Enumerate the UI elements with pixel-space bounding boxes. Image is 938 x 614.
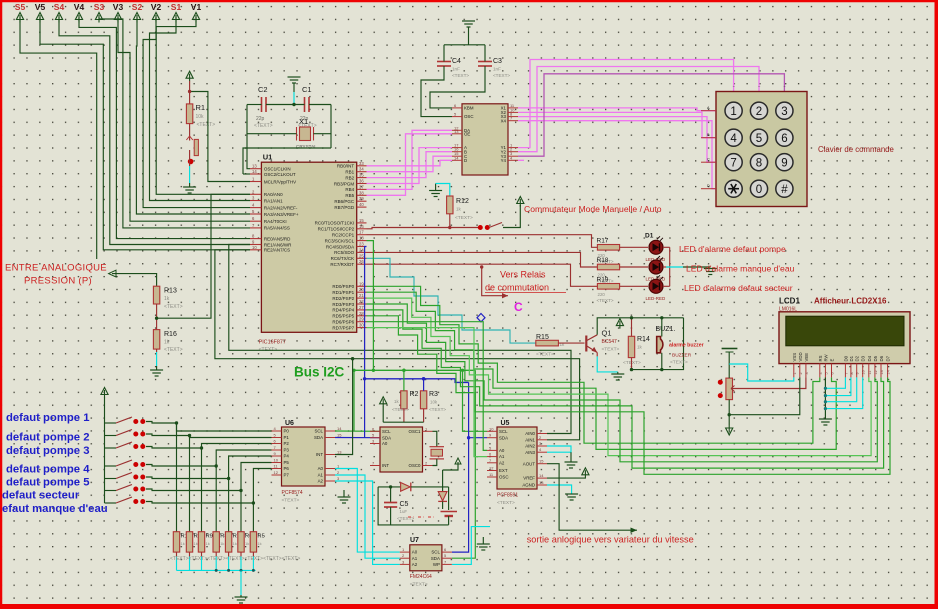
wire terminal S5 spare	[20, 17, 97, 259]
svg-text:P5: P5	[284, 460, 290, 465]
junction node MCLR net	[188, 159, 194, 165]
wire SDA to U5	[469, 382, 487, 437]
ground below R16	[150, 370, 163, 376]
svg-text:U6: U6	[285, 420, 294, 427]
svg-text:20: 20	[359, 287, 364, 292]
wire buzzer bottom	[661, 353, 663, 370]
svg-text:2: 2	[799, 372, 803, 374]
U3 pin 3 Y3	[508, 155, 518, 157]
wire SCL row U6-U2	[335, 430, 380, 432]
svg-text:12: 12	[874, 370, 878, 374]
svg-text:13: 13	[454, 129, 459, 134]
wire diode left	[378, 486, 401, 488]
svg-text:A1: A1	[318, 473, 324, 478]
svg-text:R2: R2	[410, 391, 419, 398]
wire switch 3 pivot	[105, 447, 117, 449]
svg-text:RB1: RB1	[345, 170, 354, 175]
svg-text:defaut pompe 4: defaut pompe 4	[6, 464, 90, 476]
wire terminal to U1 RA5	[99, 17, 250, 228]
resistor R13	[153, 286, 159, 304]
U1 pin 1 MCLR/Vpp/THV	[250, 181, 261, 183]
power terminal switches	[101, 388, 108, 398]
svg-text:15: 15	[337, 433, 342, 438]
U1 pin 40 RB7/PGD	[357, 206, 367, 208]
bus SDA (Bus I2C)	[365, 379, 469, 383]
U6 pin 15 SDA	[325, 437, 335, 439]
input arrow terminal	[109, 270, 116, 277]
svg-text:Q1: Q1	[602, 329, 612, 338]
svg-text:19: 19	[359, 281, 364, 286]
svg-text:RB2: RB2	[345, 175, 354, 180]
svg-text:<TEXT>: <TEXT>	[410, 582, 428, 588]
resistor R10	[186, 532, 192, 552]
svg-text:RD2/PSP2: RD2/PSP2	[332, 296, 354, 301]
U1 pin 29 RD6/PSP6	[357, 321, 367, 323]
wire to R7	[228, 479, 230, 532]
svg-text:INT: INT	[382, 463, 389, 468]
svg-text:D: D	[707, 184, 710, 188]
svg-text:5: 5	[756, 133, 762, 145]
wire to OSC1	[247, 134, 250, 169]
svg-text:1k: 1k	[164, 296, 170, 302]
wire cyan U7 WP	[452, 527, 490, 565]
svg-text:23: 23	[359, 242, 364, 247]
svg-text:7: 7	[730, 157, 736, 169]
svg-text:1k: 1k	[181, 541, 185, 546]
wire node	[330, 133, 332, 135]
wire gnd stub	[468, 27, 470, 45]
svg-text:9: 9	[856, 372, 860, 374]
svg-text:S2: S2	[132, 2, 143, 12]
U3 pin 1 Y1	[508, 147, 518, 149]
U5 pin 13 AGND	[537, 484, 547, 486]
svg-text:10: 10	[252, 245, 257, 250]
svg-text:P0: P0	[284, 429, 290, 434]
U1 pin 17 RC2/CCP1	[357, 234, 367, 236]
U5 pin 11 OSC	[487, 476, 497, 478]
U7 pin 2 A1	[400, 557, 410, 559]
svg-text:WP: WP	[433, 562, 440, 567]
svg-text:D7: D7	[886, 355, 891, 361]
U5 pin 7 A2	[487, 462, 497, 464]
svg-text:1: 1	[793, 372, 797, 374]
svg-text:#: #	[781, 184, 788, 196]
wire crystal left	[247, 105, 297, 134]
wire cyan to bus	[201, 557, 203, 571]
U3 pin 15 C	[452, 155, 462, 157]
wire pot bottom	[728, 400, 730, 425]
U6 pin 3 A2	[325, 480, 335, 482]
svg-text:SCL: SCL	[314, 429, 323, 434]
keypad button 9	[776, 154, 793, 171]
svg-text:Clavier de commande: Clavier de commande	[818, 145, 894, 154]
svg-text:RB7/PGD: RB7/PGD	[334, 205, 355, 210]
svg-text:PIC16F877: PIC16F877	[259, 340, 286, 346]
wire SDA row U6-U2	[335, 437, 380, 439]
wire R1 top	[189, 81, 191, 104]
svg-text:1k: 1k	[220, 541, 224, 546]
U1 pin 27 RD4/PSP4	[357, 309, 367, 311]
svg-text:15: 15	[359, 218, 364, 223]
svg-text:1k: 1k	[245, 541, 249, 546]
svg-text:9: 9	[781, 157, 787, 169]
svg-text:R9: R9	[206, 534, 213, 540]
U1 pin 15 RC0/T1OSO/T1CKI	[357, 222, 367, 224]
svg-text:C5: C5	[400, 501, 409, 508]
svg-text:R14: R14	[637, 336, 650, 343]
U1 pin 13 OSC1/CLKIN	[250, 168, 261, 170]
svg-text:10: 10	[274, 458, 279, 463]
wire switch 4 out	[146, 465, 216, 467]
svg-text:38: 38	[359, 190, 364, 195]
resistor R14	[628, 336, 634, 357]
wire to R8	[215, 466, 217, 532]
resistor R2	[401, 391, 407, 409]
wire switch 2 pivot	[105, 435, 117, 437]
terminal arrow S4	[55, 13, 62, 23]
svg-text:SCL: SCL	[499, 429, 508, 434]
svg-text:RD6/PSP6: RD6/PSP6	[332, 320, 354, 325]
U6 pin 6 P2	[272, 443, 282, 445]
svg-text:RB6/PGC: RB6/PGC	[334, 199, 355, 204]
U3 pin 17 A	[452, 147, 462, 149]
svg-text:OSC: OSC	[464, 114, 474, 119]
wire switch 6 pivot	[105, 490, 117, 492]
svg-text:24: 24	[359, 247, 364, 252]
wire cyan AIN2-AIN3	[547, 446, 571, 452]
svg-text:12: 12	[489, 466, 494, 471]
svg-text:R13: R13	[164, 288, 177, 295]
LED D1 element 2 LED-RED	[649, 260, 663, 274]
svg-text:AOUT: AOUT	[523, 461, 536, 466]
wire Y4 stub	[518, 159, 524, 161]
svg-text:22p: 22p	[256, 116, 265, 122]
wire VREF	[547, 477, 585, 480]
svg-text:LED-RED: LED-RED	[646, 296, 667, 301]
terminal arrow V4	[75, 13, 82, 23]
svg-text:R16: R16	[164, 331, 177, 338]
svg-text:8: 8	[850, 372, 854, 374]
U1 pin 5 RA3/AN3/VREF+	[250, 213, 261, 215]
wire OSC1 to crystal	[433, 431, 437, 446]
U1 pin 37 RB4	[357, 188, 367, 190]
ground near U7	[477, 544, 490, 550]
U1 pin 3 RA1/AN1	[250, 200, 261, 202]
potentiometer RV1	[726, 378, 733, 400]
U1 pin 7 RA5/AN4/SS	[250, 227, 261, 229]
wire cyan LCD data	[825, 377, 856, 401]
wire LED anode	[663, 285, 670, 287]
svg-text:RA0/AN0: RA0/AN0	[264, 192, 283, 197]
svg-text:R15: R15	[536, 334, 549, 341]
svg-text:defaut pompe 5: defaut pompe 5	[6, 477, 89, 489]
wire cyan U6 A1 to U7	[335, 475, 400, 558]
wire terminal to U1 RA2	[143, 17, 250, 208]
svg-text:<TEXT>: <TEXT>	[493, 73, 510, 78]
svg-text:VSS: VSS	[792, 353, 797, 362]
wire to ground	[570, 452, 572, 462]
svg-text:FM24C64: FM24C64	[410, 574, 432, 580]
wire R1 to MCLR	[190, 92, 250, 182]
svg-text:13: 13	[337, 450, 342, 455]
svg-text:VDD: VDD	[798, 352, 803, 361]
svg-text:C: C	[514, 300, 523, 314]
wire Q1 collector loop top	[597, 318, 683, 335]
U5 pin 4 AIN3	[537, 451, 547, 453]
svg-text:BUZ1.: BUZ1.	[656, 326, 676, 333]
svg-text:RC0/T1OSO/T1CKI: RC0/T1OSO/T1CKI	[315, 221, 355, 226]
svg-text:OSC0: OSC0	[409, 463, 422, 468]
svg-text:Commutateur Mode Manuelle / Au: Commutateur Mode Manuelle / Auto	[524, 204, 662, 214]
svg-text:33: 33	[359, 161, 364, 166]
svg-text:V2: V2	[151, 2, 162, 12]
U6 pin 11 P6	[272, 468, 282, 470]
terminal arrow V5	[36, 13, 43, 23]
wire pot wiper to VEE	[733, 377, 806, 388]
svg-text:SDA: SDA	[499, 435, 508, 440]
svg-text:39: 39	[359, 196, 364, 201]
U7 pin 3 A2	[400, 563, 410, 565]
wire cyan to bus	[228, 557, 230, 571]
svg-text:OSC1: OSC1	[409, 429, 422, 434]
wire zener bottom	[442, 501, 444, 509]
svg-text:RE2/AN7/CS: RE2/AN7/CS	[264, 248, 290, 253]
svg-text:R18: R18	[597, 257, 609, 264]
svg-text:OSC1/CLKIN: OSC1/CLKIN	[264, 167, 291, 172]
svg-text:LED d'alarme defaut pompe: LED d'alarme defaut pompe	[679, 244, 786, 254]
U1 pin 2 RA0/AN0	[250, 193, 261, 195]
svg-text:LED d'alarme manque d'eau: LED d'alarme manque d'eau	[686, 264, 795, 274]
svg-text:RA2/AN2/VREF-: RA2/AN2/VREF-	[264, 205, 298, 210]
svg-text:0: 0	[756, 184, 762, 196]
svg-text:<TEXT>: <TEXT>	[392, 407, 409, 412]
wire magenta encoder X to keypad row	[518, 112, 716, 137]
terminal arrow S2	[133, 13, 140, 23]
U1 pin 10 RE2/AN7/CS	[250, 249, 261, 251]
U3 pin 14 D	[452, 159, 462, 161]
svg-text:RB3/PGM: RB3/PGM	[334, 181, 355, 186]
svg-text:10k: 10k	[196, 114, 205, 120]
U1 pin 38 RB5	[357, 194, 367, 196]
wire VCC stem	[382, 407, 384, 423]
wire to U6 P5	[241, 463, 272, 491]
svg-text:1uF: 1uF	[400, 509, 408, 514]
svg-text:BUZZER: BUZZER	[672, 353, 692, 359]
U1 pin 28 RD5/PSP5	[357, 315, 367, 317]
U1 pin 30 RD7/PSP7	[357, 327, 367, 329]
U1 pin 20 RD1/PSP1	[357, 291, 367, 293]
wire cyan crystal ground	[293, 92, 295, 105]
wire C1 right	[309, 104, 331, 106]
keypad row pin 3	[701, 188, 716, 190]
U3 pin 12 DA	[452, 129, 462, 131]
wire cyan LCD data	[825, 377, 851, 395]
svg-text:C2: C2	[258, 85, 268, 94]
wire cyan to bus	[252, 557, 254, 571]
svg-text:13: 13	[880, 370, 884, 374]
svg-text:25: 25	[359, 253, 364, 258]
wire to OSC2	[243, 173, 250, 175]
svg-text:SCL: SCL	[431, 550, 440, 555]
svg-text:SDA: SDA	[382, 435, 391, 440]
svg-text:13: 13	[252, 164, 257, 169]
svg-text:C3: C3	[493, 58, 502, 65]
svg-text:RB5: RB5	[345, 193, 354, 198]
keypad encoder U3 MM74C922	[462, 104, 508, 175]
wire to R10	[189, 436, 191, 532]
wire RD3 to LCD	[367, 304, 878, 462]
svg-text:V1: V1	[191, 2, 202, 12]
wire RD2 to LCD	[367, 298, 872, 456]
wire resistor bottom	[228, 552, 230, 556]
wire terminal to U1 RE2	[40, 17, 250, 250]
U5 pin 3 AIN2	[537, 445, 547, 447]
svg-text:RD5/PSP5: RD5/PSP5	[332, 314, 354, 319]
keypad button 1	[725, 102, 742, 119]
wire cyan R1 ground	[189, 166, 191, 183]
svg-text:22: 22	[359, 299, 364, 304]
svg-text:3: 3	[781, 106, 787, 118]
resistor R8	[213, 532, 219, 552]
U6 pin 1 A0	[325, 468, 335, 470]
wire switch 1 out	[146, 422, 177, 424]
svg-text:RD7/PSP7: RD7/PSP7	[332, 325, 354, 330]
U1 pin 33 RB0/INT	[357, 165, 367, 167]
U1 pin 16 RC1/T1OSI/CCP2	[357, 228, 367, 230]
wire RC1 to mode switch	[367, 228, 479, 229]
U3 pin 13 OE	[452, 133, 462, 135]
U2 pin 2 OSC0	[423, 465, 433, 467]
wire AOUT sortie	[547, 464, 637, 531]
U1 pin 23 RC4/SDI/SDA	[357, 246, 367, 248]
svg-text:OSC2/CLKOUT: OSC2/CLKOUT	[264, 172, 296, 177]
wire R13-R16	[156, 304, 158, 330]
svg-text:defaut pompe 1: defaut pompe 1	[6, 412, 89, 424]
svg-text:C1: C1	[302, 85, 312, 94]
wire RE1 to U5 AIN0	[229, 245, 571, 434]
ground AIN	[565, 462, 578, 468]
junction marker	[477, 314, 485, 322]
svg-text:R17: R17	[597, 237, 609, 244]
wire RD7 to U5 A1	[367, 328, 488, 457]
wire stub	[240, 595, 242, 597]
wire ground stub	[293, 83, 295, 92]
wire R14 bottom	[631, 358, 633, 370]
capacitor C3	[478, 62, 492, 67]
wire cyan U6 A0 to U7	[335, 469, 400, 553]
svg-text:1k: 1k	[456, 207, 462, 212]
svg-text:V4: V4	[74, 2, 85, 12]
svg-text:SCL: SCL	[382, 429, 391, 434]
keypad button 7	[725, 154, 742, 171]
resistor R9	[198, 532, 204, 552]
svg-text:220: 220	[598, 292, 606, 297]
svg-text:AIN3: AIN3	[525, 450, 535, 455]
svg-text:R19: R19	[597, 276, 609, 283]
wire C2-C1	[266, 104, 305, 106]
svg-text:10: 10	[862, 370, 866, 374]
resistor R18	[597, 264, 619, 270]
svg-text:RC6/TX/CK: RC6/TX/CK	[331, 256, 355, 261]
svg-text:1k: 1k	[637, 345, 643, 350]
wire cyan emitter to ground	[597, 356, 618, 372]
wire teal RC6 to R15	[367, 258, 536, 343]
wire LED rail	[669, 247, 671, 286]
svg-text:1k: 1k	[164, 340, 170, 346]
svg-text:AGND: AGND	[522, 483, 535, 488]
svg-text:RE0/AN5/RD: RE0/AN5/RD	[264, 236, 291, 241]
keypad button 8	[750, 154, 767, 171]
keypad button 4	[725, 129, 742, 146]
wire C5 top	[390, 487, 392, 502]
wire cyan AGND	[547, 485, 572, 494]
wire to U6 P0	[177, 423, 272, 431]
svg-text:A0: A0	[318, 466, 324, 471]
svg-text:14: 14	[337, 426, 342, 431]
resistor R5	[250, 532, 256, 552]
U3 pin 16 B	[452, 151, 462, 153]
wire magenta U1 to encoder	[367, 160, 453, 166]
svg-text:D4: D4	[867, 355, 872, 361]
svg-text:A2: A2	[318, 479, 324, 484]
wire R14 top	[631, 318, 633, 337]
svg-text:VEE: VEE	[804, 353, 809, 362]
resistor R16	[153, 330, 159, 350]
wire magenta U1 to encoder	[367, 152, 453, 178]
U3 pin 2 Y2	[508, 151, 518, 153]
svg-text:defaut pompe 3: defaut pompe 3	[6, 445, 89, 457]
wire magenta U1 to encoder	[367, 130, 453, 189]
svg-text:RA3/AN3/VREF+: RA3/AN3/VREF+	[264, 212, 299, 217]
wire cyan to ground	[156, 352, 158, 366]
wire terminal to U1 RA3	[136, 17, 250, 214]
svg-text:RD0/PSP0: RD0/PSP0	[332, 284, 354, 289]
wire switch 4 pivot	[105, 465, 117, 467]
wire RW to ground	[824, 377, 826, 419]
U1 pin 36 RB3/PGM	[357, 183, 367, 185]
svg-text:PRESSION (P): PRESSION (P)	[24, 276, 92, 287]
wire stub	[343, 490, 345, 497]
svg-text:36: 36	[359, 179, 364, 184]
RTC U2 PCF8583	[380, 427, 423, 472]
wire terminal to U1 RE1	[59, 17, 250, 245]
terminal arrow S5	[16, 13, 23, 23]
svg-text:3: 3	[805, 372, 809, 374]
wire R17 to LED	[620, 246, 648, 248]
keypad button 0	[750, 180, 767, 197]
U5 pin 2 AIN1	[537, 439, 547, 441]
svg-text:4: 4	[730, 133, 737, 145]
wire terminal to U1 RE0	[79, 17, 250, 239]
svg-text:S3: S3	[94, 2, 105, 12]
wire switch 5 pivot	[105, 478, 117, 480]
svg-text:X1: X1	[299, 117, 308, 126]
resistor R1	[186, 104, 192, 124]
svg-text:X4: X4	[501, 118, 507, 123]
svg-text:D: D	[464, 158, 467, 163]
wire switch rail	[104, 397, 106, 503]
svg-text:21: 21	[359, 293, 364, 298]
wire to U6 P1	[190, 436, 272, 438]
svg-text:PCF8591: PCF8591	[497, 493, 518, 499]
svg-text:OE: OE	[464, 131, 470, 136]
wire resistor bottom	[189, 552, 191, 556]
svg-text:<TEXT>: <TEXT>	[282, 498, 300, 504]
svg-text:RC3/SCK/SCL: RC3/SCK/SCL	[325, 238, 355, 243]
wire LED anode	[663, 266, 670, 268]
svg-text:<TEXT>: <TEXT>	[497, 500, 515, 506]
wire cyan U6 A2 to U7	[335, 481, 400, 564]
